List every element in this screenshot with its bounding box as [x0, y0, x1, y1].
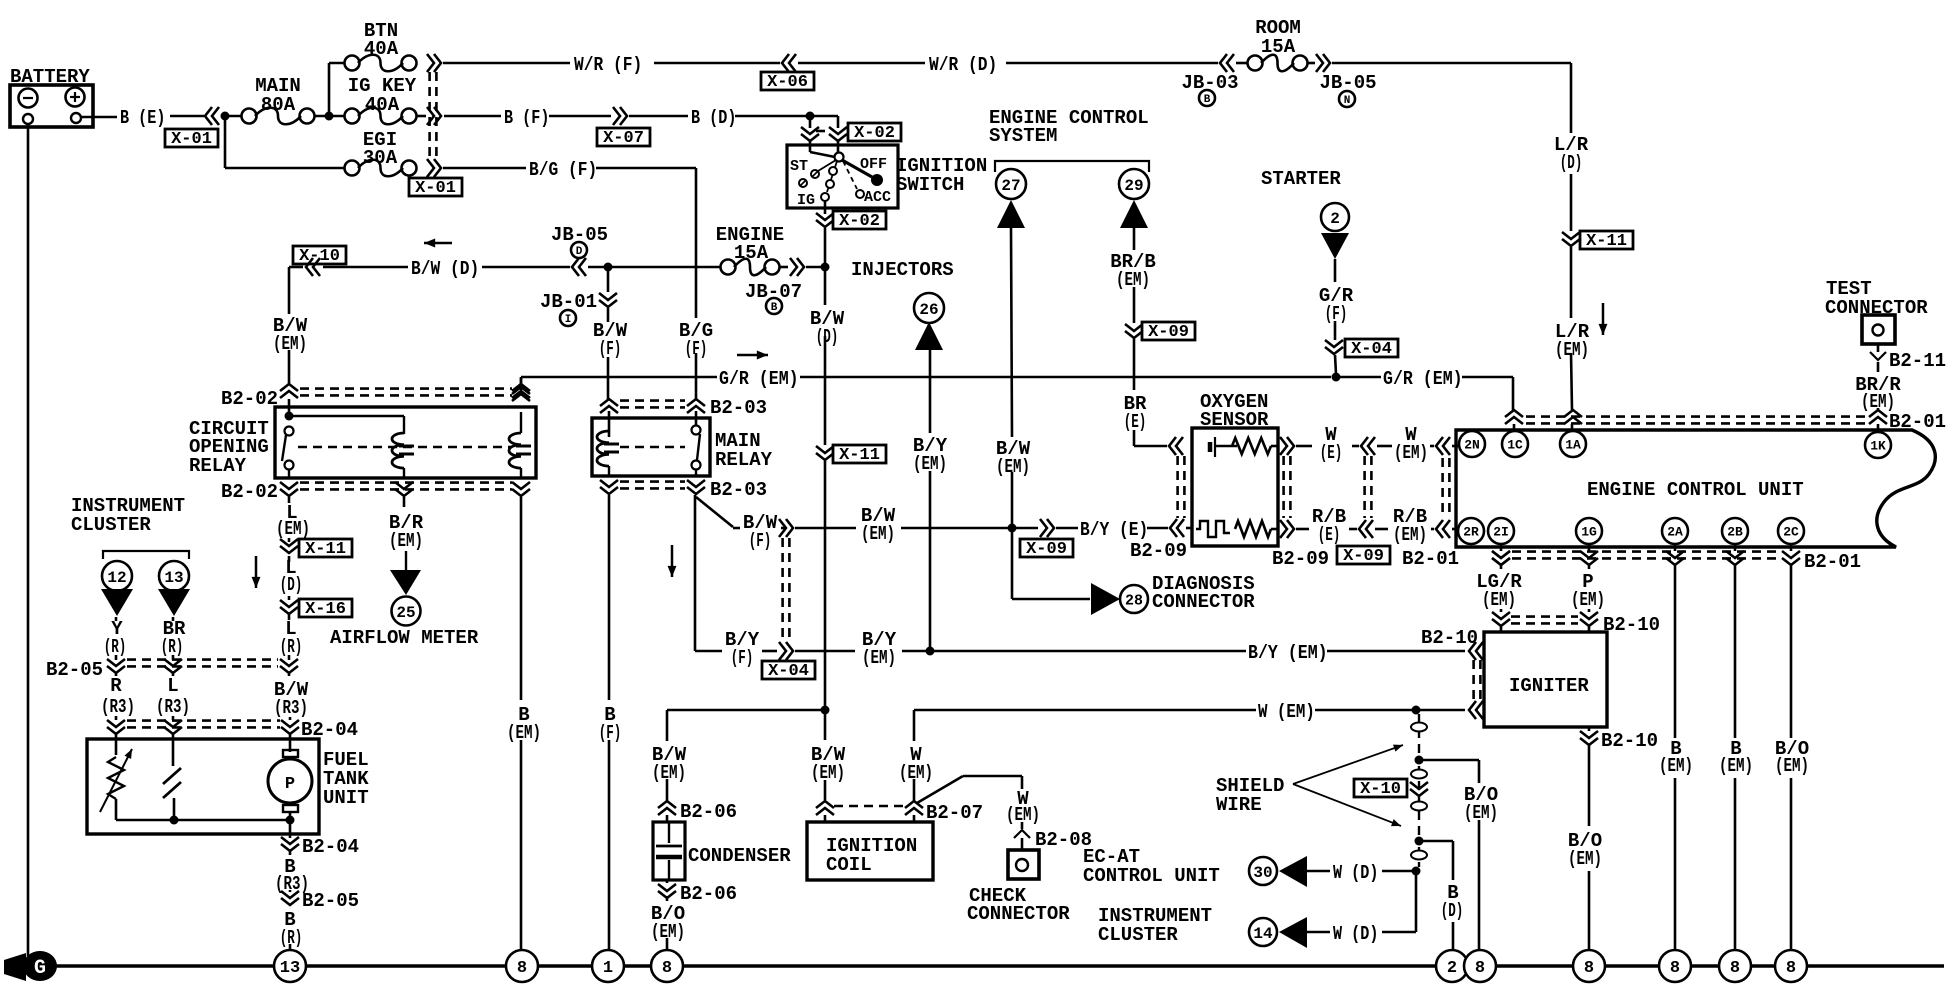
connector chevron W mid	[1361, 437, 1375, 455]
svg-text:COIL: COIL	[826, 854, 872, 876]
wire BTN branch	[329, 63, 351, 116]
connector chevron B2-08	[1014, 830, 1030, 838]
label IGNITION SWITCH	[896, 155, 987, 196]
connector chevrons B2-05	[107, 659, 298, 673]
wire B/W(D) vertical	[824, 267, 827, 822]
label B/W(EM) coil col	[811, 744, 846, 784]
svg-text:(EM): (EM)	[811, 762, 845, 784]
wire R/B(EM)	[1375, 528, 1458, 531]
wire fuel tank ground	[289, 834, 292, 950]
ecu pin 2B	[1722, 518, 1748, 544]
label JB-07	[745, 281, 802, 314]
junction node B/W(F)	[604, 263, 613, 272]
svg-text:CLUSTER: CLUSTER	[1098, 924, 1178, 946]
fuse ENGINE 15A	[716, 224, 784, 275]
svg-text:B/W (D): B/W (D)	[411, 258, 479, 280]
connector chevron X-11 L	[280, 539, 298, 553]
svg-text:(F): (F)	[749, 530, 772, 552]
wire B/O(EM) branch	[1419, 760, 1479, 950]
label JB-01	[540, 291, 597, 326]
arrow down under 13	[158, 589, 190, 616]
connector dashed B2-02 bottom	[300, 483, 512, 490]
label B/W(F) col	[593, 320, 628, 360]
wire B/Y(EM) horizontal	[695, 648, 1465, 651]
wire ignition IG output	[824, 201, 827, 267]
connector chevron 2I down	[1492, 551, 1510, 565]
label B/Y(E)	[1080, 519, 1148, 541]
svg-text:(EM): (EM)	[276, 518, 310, 540]
ecu pin 2I	[1488, 518, 1514, 544]
connector chevron X-04 BW	[779, 519, 793, 537]
label W(D) upper	[1333, 862, 1378, 884]
wire B(D) branch	[1419, 841, 1453, 950]
label CONDENSER	[688, 845, 791, 867]
label B2-07	[926, 802, 983, 824]
label B/O(EM) condenser	[651, 903, 685, 943]
connector dashed B2-02 top	[300, 389, 512, 396]
label B2-03 top	[710, 397, 767, 419]
connector dashed O2 right	[1284, 456, 1291, 518]
svg-text:SWITCH: SWITCH	[896, 174, 964, 196]
fuse BTN 40A	[345, 20, 417, 71]
connector chevron into O2 lower	[1170, 519, 1184, 537]
svg-text:X-02: X-02	[854, 124, 895, 143]
connector dashed B2-05	[127, 660, 278, 667]
connector chevron into O2 upper	[1169, 437, 1183, 455]
svg-text:X-06: X-06	[767, 73, 808, 92]
airflow meter circle 25	[392, 597, 421, 626]
label R/B(EM)	[1393, 506, 1427, 546]
connector chevron RB mid	[1359, 520, 1373, 538]
connector chevron X-11 mid	[816, 446, 834, 460]
ground circle 8e	[1659, 950, 1691, 982]
svg-text:2C: 2C	[1783, 525, 1799, 540]
svg-text:26: 26	[919, 301, 938, 319]
label BR(E)	[1124, 393, 1147, 433]
svg-text:G: G	[34, 957, 46, 980]
label B/Y(F)	[725, 629, 760, 669]
connector dashed W mid	[1365, 456, 1372, 518]
label W(EM) check col	[1006, 788, 1040, 826]
wire ignition switch feeds	[810, 116, 838, 157]
label TEST CONNECTOR	[1825, 278, 1928, 319]
wire G/R(F) column	[1335, 259, 1336, 374]
svg-text:W (D): W (D)	[1333, 862, 1378, 884]
svg-text:WIRE: WIRE	[1216, 794, 1262, 816]
connector dashed B2-03 top	[620, 401, 685, 408]
svg-text:X-09: X-09	[1343, 547, 1384, 566]
svg-text:W (D): W (D)	[1333, 923, 1378, 945]
shield wire dashed	[1411, 714, 1427, 867]
wire igniter ground	[1588, 727, 1591, 950]
label INSTRUMENT CLUSTER right	[1098, 905, 1212, 946]
arrow down left of L column	[252, 556, 261, 588]
cluster circle 14	[1249, 918, 1277, 946]
svg-text:X-11: X-11	[839, 446, 880, 465]
wire 2B ground	[1734, 545, 1737, 950]
label B(E)	[120, 107, 165, 129]
svg-text:2R: 2R	[1463, 525, 1479, 540]
label OFF	[860, 156, 887, 173]
label L(R)	[280, 618, 303, 658]
label B/W(R3)	[274, 679, 309, 719]
connector chevron into ECU 2N	[1436, 437, 1450, 455]
svg-text:B2-03: B2-03	[710, 397, 767, 419]
wire W/R(F) row	[443, 62, 1571, 65]
connector dashed B2-01 bottom	[1512, 552, 1780, 559]
connector chevron P B2-10	[1580, 612, 1598, 626]
junction node W(EM)	[1412, 706, 1421, 715]
label R(R3)	[101, 675, 135, 718]
bracket instrument cluster	[103, 551, 189, 559]
label INJECTORS	[851, 259, 954, 281]
label B2-09 left	[1130, 540, 1187, 562]
svg-text:X-01: X-01	[171, 130, 212, 149]
wire G/R to relay coil	[520, 378, 523, 388]
fuel tank bottom bus	[116, 798, 295, 834]
junction node shield lower	[1415, 837, 1424, 846]
main relay internals	[597, 426, 701, 477]
wire B(EM) vertical	[520, 497, 523, 950]
check connector box	[1008, 850, 1039, 879]
svg-text:(F): (F)	[1325, 303, 1348, 325]
svg-text:ENGINE CONTROL UNIT: ENGINE CONTROL UNIT	[1587, 479, 1804, 501]
junction node after MAIN fuse	[325, 112, 334, 121]
label P(EM)	[1571, 571, 1605, 611]
connector dashed B2-03 bottom	[620, 482, 685, 489]
connector chevrons X-01 after fuses	[427, 54, 441, 177]
svg-text:(EM): (EM)	[1393, 524, 1427, 546]
ecu pin 2C	[1778, 518, 1804, 544]
connector box X-09 BR	[1142, 322, 1195, 342]
label W(EM) horizontal	[1258, 701, 1315, 723]
wire B(F) vertical	[608, 495, 611, 950]
svg-text:(E): (E)	[1318, 524, 1341, 546]
svg-text:(EM): (EM)	[652, 762, 686, 784]
fuse EGI 30A	[345, 129, 417, 176]
label B2-01 RB	[1402, 548, 1459, 570]
wire condenser branch	[667, 710, 825, 822]
junction node ignition feed	[806, 112, 815, 121]
injector circle 26	[914, 293, 944, 323]
svg-text:1A: 1A	[1565, 438, 1581, 453]
connector chevron B2-02 left top	[280, 384, 298, 398]
label B2-03 bottom	[710, 479, 767, 501]
label B/W(D) row	[411, 258, 479, 280]
connector chevron X-04 GR	[1325, 340, 1343, 354]
connector box X-01	[165, 129, 218, 149]
arrow down under 12	[101, 589, 133, 616]
injector circle 27	[996, 169, 1026, 199]
label STARTER	[1261, 168, 1341, 190]
label LG/R(EM)	[1476, 571, 1522, 611]
svg-text:B2-10: B2-10	[1603, 614, 1660, 636]
svg-text:B2-06: B2-06	[680, 883, 737, 905]
svg-text:40A: 40A	[364, 38, 399, 60]
junction node condenser branch	[821, 706, 830, 715]
label B2-10 left	[1421, 627, 1478, 649]
ground bus wire	[30, 964, 1944, 967]
svg-text:30A: 30A	[363, 147, 398, 169]
svg-text:B: B	[771, 302, 778, 314]
svg-text:B2-03: B2-03	[710, 479, 767, 501]
svg-text:X-01: X-01	[415, 179, 456, 198]
connector chevron igniter W	[1469, 701, 1483, 719]
svg-text:8: 8	[662, 959, 672, 978]
engine control unit box	[1456, 430, 1935, 547]
svg-text:(EM): (EM)	[273, 333, 307, 355]
connector chevron X-01 on B(E)	[205, 107, 219, 125]
label B(EM) mid	[507, 704, 541, 744]
label W(EM) coil col	[899, 744, 933, 784]
label B/G(F) top	[529, 159, 597, 181]
connector dashed line X-01	[430, 72, 437, 160]
svg-text:15A: 15A	[734, 242, 769, 264]
svg-text:B2-01: B2-01	[1889, 411, 1946, 433]
ecu pin 1G	[1576, 518, 1602, 544]
connector chevrons B2-01 bottom	[1492, 551, 1800, 565]
connector chevrons B2-07	[816, 801, 923, 815]
wire LG/R column	[1500, 545, 1503, 632]
wire B(E) row	[81, 116, 838, 117]
arrow down near L/R	[1599, 303, 1608, 335]
wire 12 to B2-05	[115, 617, 118, 660]
svg-text:B (D): B (D)	[691, 107, 736, 129]
svg-text:RELAY: RELAY	[189, 455, 247, 477]
label JB-05 mid	[551, 224, 608, 258]
label BR/R(EM)	[1855, 374, 1901, 413]
label B2-04 row	[301, 719, 358, 741]
wire 12 to B2-04	[115, 673, 118, 720]
svg-text:B2-09: B2-09	[1272, 548, 1329, 570]
label SHIELD WIRE	[1216, 775, 1284, 816]
label B(R3)	[275, 856, 309, 895]
label W(D) lower	[1333, 923, 1378, 945]
svg-text:B2-01: B2-01	[1402, 548, 1459, 570]
svg-text:OFF: OFF	[860, 156, 887, 173]
svg-text:2A: 2A	[1667, 525, 1683, 540]
wire W(E)	[1296, 445, 1359, 448]
connector dashed O2 left	[1178, 456, 1185, 518]
connector chevron LG/R B2-10	[1492, 612, 1510, 626]
arrow down under starter	[1321, 233, 1349, 259]
label FUEL TANK UNIT	[323, 749, 369, 809]
svg-text:8: 8	[517, 959, 527, 978]
svg-text:(R): (R)	[280, 636, 303, 658]
label B(D)	[691, 107, 736, 129]
svg-text:14: 14	[1253, 925, 1273, 943]
svg-text:X-07: X-07	[603, 129, 644, 148]
connector dashed X-04 vertical	[783, 538, 790, 641]
ecu pin 1K	[1865, 432, 1891, 458]
wire test connector down	[1877, 344, 1880, 431]
svg-text:B2-10: B2-10	[1421, 627, 1478, 649]
ground circle 8f	[1719, 950, 1751, 982]
fuse ROOM 15A	[1248, 17, 1308, 71]
svg-text:(EM): (EM)	[913, 453, 947, 475]
ground circle 8c	[1464, 950, 1496, 982]
svg-text:(D): (D)	[1560, 152, 1583, 174]
label B/G(F) col	[679, 320, 713, 360]
label L(D)	[280, 557, 303, 596]
circuit opening relay internals	[282, 412, 531, 479]
connector chevron B2-01 1C	[1505, 410, 1523, 424]
connector chevron X-11 LR	[1562, 232, 1580, 246]
label B2-01 top right	[1889, 411, 1946, 433]
label B(F)	[504, 107, 549, 129]
junction node at MAIN fuse	[221, 112, 230, 121]
label B/O(EM) 2C	[1775, 738, 1809, 777]
label B/W(EM) col27	[996, 438, 1031, 478]
svg-text:X-09: X-09	[1026, 540, 1067, 559]
shield arrows	[1293, 745, 1403, 826]
svg-text:P: P	[285, 775, 295, 794]
svg-text:2I: 2I	[1493, 525, 1509, 540]
connector dashed B2-01 top	[1526, 417, 1866, 424]
svg-text:CONDENSER: CONDENSER	[688, 845, 791, 867]
ignition switch U1 box	[787, 145, 898, 208]
svg-text:B2-02: B2-02	[221, 481, 278, 503]
label B2-10 bottom	[1601, 730, 1658, 752]
connector chevron X-10	[306, 258, 320, 276]
label L(EM)	[276, 502, 310, 540]
label IG	[797, 192, 815, 209]
connector box X-10 shield	[1354, 779, 1407, 799]
svg-text:B (F): B (F)	[504, 107, 549, 129]
svg-text:CONNECTOR: CONNECTOR	[1152, 591, 1255, 613]
svg-text:X-16: X-16	[305, 600, 346, 619]
svg-text:W/R (D): W/R (D)	[929, 54, 997, 76]
svg-text:B (E): B (E)	[120, 107, 165, 129]
svg-text:2: 2	[1330, 210, 1340, 228]
wire condenser to ground	[666, 880, 669, 950]
svg-text:2: 2	[1447, 959, 1457, 978]
svg-text:1G: 1G	[1581, 525, 1597, 540]
connector box X-06	[761, 72, 814, 92]
arrow right above G/R	[737, 351, 768, 360]
svg-text:(F): (F)	[731, 647, 754, 669]
wire EGI branch	[225, 116, 351, 168]
wire to check connector	[917, 776, 1022, 850]
wire 2A ground	[1674, 545, 1677, 950]
label G/R(F)	[1319, 285, 1354, 325]
label EC-AT CONTROL UNIT	[1083, 846, 1220, 887]
junction node shield upper	[1415, 756, 1424, 765]
svg-text:D: D	[576, 246, 583, 258]
svg-text:(EM): (EM)	[389, 530, 423, 552]
label B2-05 out	[302, 890, 359, 912]
oxygen sensor cell symbol	[1210, 437, 1278, 457]
wire W(EM) horizontal	[914, 709, 1465, 712]
condenser C1	[653, 822, 685, 880]
ground circle 8b	[651, 950, 683, 982]
connector chevrons B2-03 top	[600, 399, 705, 413]
svg-text:28: 28	[1125, 592, 1143, 609]
svg-text:B2-09: B2-09	[1130, 540, 1187, 562]
cluster arrow	[1279, 917, 1307, 948]
svg-text:X-02: X-02	[839, 212, 880, 231]
svg-text:B2-11: B2-11	[1889, 350, 1946, 372]
label B(R)	[280, 909, 303, 949]
wire to diagnosis connector	[1012, 528, 1090, 599]
svg-text:(R3): (R3)	[101, 696, 135, 718]
connector box X-04 GR	[1345, 339, 1398, 359]
wire B/W(D) row	[289, 266, 825, 269]
svg-text:N: N	[1344, 95, 1351, 107]
svg-text:(F): (F)	[685, 338, 708, 360]
wire BR/B(EM) column	[1134, 228, 1167, 446]
wire 13 to B2-04	[172, 673, 175, 720]
ecu pin 2R	[1458, 518, 1484, 544]
svg-text:(EM): (EM)	[1571, 589, 1605, 611]
wire B/W(EM) injector column	[1011, 228, 1012, 525]
label W(EM) right	[1394, 424, 1428, 464]
ground symbol G	[4, 951, 57, 981]
svg-text:X-04: X-04	[768, 662, 809, 681]
label L/R(EM)	[1555, 321, 1590, 361]
label W(E)	[1320, 424, 1343, 464]
svg-text:W/R (F): W/R (F)	[574, 54, 642, 76]
connector chevrons O2 outputs	[1280, 437, 1294, 538]
connector chevrons B2-04	[107, 720, 299, 734]
svg-text:X-11: X-11	[305, 540, 346, 559]
svg-text:(EM): (EM)	[507, 722, 541, 744]
svg-text:G/R (EM): G/R (EM)	[1383, 368, 1463, 390]
fuel tank switch	[163, 768, 181, 798]
oxygen sensor zirconia symbol	[1196, 521, 1278, 537]
svg-text:ST: ST	[790, 158, 808, 175]
svg-text:X-09: X-09	[1148, 323, 1189, 342]
ground circle 1	[592, 950, 624, 982]
label L/R(D)	[1554, 134, 1589, 174]
junction node B/Y	[926, 647, 935, 656]
label B(EM) 2A	[1659, 738, 1693, 777]
svg-text:2B: 2B	[1727, 525, 1743, 540]
connector box X-09 RB	[1337, 546, 1390, 566]
connector chevron X-09 BR	[1125, 324, 1143, 338]
label B(D) branch	[1441, 882, 1464, 922]
ecu pin 1C	[1502, 431, 1528, 457]
svg-text:(EM): (EM)	[1719, 755, 1753, 777]
wire W(EM) to coil	[913, 710, 916, 822]
wire 13 to B2-05	[172, 617, 175, 660]
junction node W(D)	[1412, 867, 1421, 876]
svg-text:(R): (R)	[104, 636, 127, 658]
ignition coil T1 box	[807, 822, 933, 880]
svg-text:2N: 2N	[1464, 438, 1480, 453]
ecat arrow	[1279, 856, 1307, 887]
wire B/Y(EM) column	[929, 350, 932, 648]
label ST	[790, 158, 808, 175]
connector chevron B2-02 right top	[512, 384, 530, 398]
svg-text:30: 30	[1253, 864, 1272, 882]
junction node B/W(EM)	[1008, 524, 1017, 533]
svg-text:(EM): (EM)	[1775, 755, 1809, 777]
oxygen sensor box	[1192, 428, 1278, 546]
fuel tank pump motor	[268, 750, 312, 812]
svg-text:(D): (D)	[1441, 900, 1464, 922]
label B/O(EM) igniter	[1568, 830, 1602, 870]
wire W(D) lower	[1307, 931, 1416, 934]
connector chevrons B2-02 bottom	[280, 482, 530, 496]
svg-text:(EM): (EM)	[1568, 848, 1602, 870]
starter circle 2	[1321, 203, 1349, 231]
label B2-02 bottom	[221, 481, 278, 503]
svg-text:CONTROL UNIT: CONTROL UNIT	[1083, 865, 1220, 887]
cluster circle 12	[102, 561, 132, 591]
label B/Y(EM) col	[913, 435, 948, 475]
label B/W(EM) horizontal	[861, 505, 896, 545]
